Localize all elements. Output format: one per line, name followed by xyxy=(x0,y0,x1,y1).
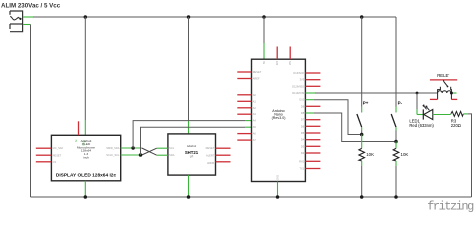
OLED pin RESET xyxy=(36,154,52,156)
junction 5V-SHT21 xyxy=(187,15,191,19)
crossover X wires xyxy=(142,148,157,155)
relay switch arm xyxy=(438,80,452,93)
pushbutton P+ arm xyxy=(357,114,362,127)
junction GND-OLED xyxy=(84,195,88,199)
wire 5V drop to Arduino 5V pin xyxy=(263,17,265,59)
svg-text:RESET: RESET xyxy=(53,153,62,157)
wire GND rail xyxy=(31,196,472,198)
svg-text:RELE’: RELE’ xyxy=(437,73,449,78)
svg-text:A6: A6 xyxy=(253,132,257,136)
junction P- node xyxy=(394,140,398,144)
junction GND-SHT21 xyxy=(187,195,191,199)
junction 5V-Arduino xyxy=(262,15,266,19)
SHT21 bottom pin GND xyxy=(188,175,190,197)
junction relay coil xyxy=(450,92,453,95)
svg-text:A1: A1 xyxy=(253,99,257,103)
wire I2C riser B to Arduino A5 xyxy=(141,127,252,155)
svg-text:A7: A7 xyxy=(253,138,257,142)
svg-text:D8: D8 xyxy=(301,111,305,115)
junction GND-R1 xyxy=(360,195,364,199)
svg-text:ALERT: ALERT xyxy=(206,154,215,158)
wire LED to R3 xyxy=(433,114,451,116)
wire 5V rail xyxy=(33,16,396,18)
OLED top pin labels xyxy=(75,139,86,146)
wire LED branch drop xyxy=(417,93,423,115)
svg-text:VIN: VIN xyxy=(289,61,292,65)
svg-text:SHT21: SHT21 xyxy=(185,150,199,155)
svg-text:Red (633nm): Red (633nm) xyxy=(409,123,434,128)
wire OLED SDA to crossover xyxy=(121,147,142,149)
connector J1 tip contact dot xyxy=(19,18,21,20)
junction GND-R2 xyxy=(394,195,398,199)
svg-text:D6: D6 xyxy=(301,124,305,128)
svg-text:3V3: 3V3 xyxy=(276,60,279,65)
arduino top pin VIN stub xyxy=(289,47,291,60)
svg-text:ALIM 230Vac / 5 Vcc: ALIM 230Vac / 5 Vcc xyxy=(1,2,61,9)
arduino right pins unconnected xyxy=(305,73,320,169)
svg-text:U?: U? xyxy=(190,155,194,159)
arduino right pin labels xyxy=(292,71,305,171)
relay coil green stub xyxy=(451,92,456,94)
svg-text:inch: inch xyxy=(83,155,89,159)
junction I2C node A xyxy=(131,146,135,150)
svg-text:CS: CS xyxy=(53,160,57,164)
relay bottom pin bars xyxy=(430,98,457,100)
SHT21 right pin RESET xyxy=(216,147,231,149)
svg-text:A4: A4 xyxy=(253,119,257,123)
svg-text:DISPLAY OLED 128x64 I2c: DISPLAY OLED 128x64 I2c xyxy=(56,173,117,179)
svg-text:A3: A3 xyxy=(253,112,257,116)
resistor R3 labels xyxy=(451,119,461,128)
svg-text:D9: D9 xyxy=(301,104,305,108)
OLED top pin 3v stub xyxy=(78,121,80,135)
pushbutton P- arm xyxy=(391,114,396,127)
svg-text:D12/MISO: D12/MISO xyxy=(292,84,304,88)
svg-text:RX0: RX0 xyxy=(299,159,305,163)
SHT21 right pin ADDR xyxy=(216,161,231,163)
svg-text:220Ω: 220Ω xyxy=(451,123,461,128)
wire OLED SCL to crossover xyxy=(121,154,142,156)
wire crossover to SHT21 SCL xyxy=(157,147,168,149)
svg-text:A2: A2 xyxy=(253,106,257,110)
wire 5V drop to pushbutton P- xyxy=(395,17,397,113)
connector J1 power jack xyxy=(10,11,23,32)
svg-text:P+: P+ xyxy=(363,100,369,105)
svg-text:fritzing: fritzing xyxy=(427,199,474,213)
relay coil xyxy=(438,91,452,100)
relay top pins bar xyxy=(430,79,457,81)
junction LED branch xyxy=(416,92,419,95)
svg-text:RESET: RESET xyxy=(253,70,262,74)
svg-text:SCL: SCL xyxy=(169,146,175,150)
LED1 emission arrows xyxy=(423,105,429,110)
SHT21 right pin ALERT xyxy=(216,154,231,156)
LED1 labels xyxy=(409,119,434,128)
OLED inner description text xyxy=(77,139,95,160)
SHT21 pin labels xyxy=(169,146,215,165)
svg-text:5V: 5V xyxy=(263,61,266,64)
wire I2C riser A to Arduino A4 xyxy=(133,121,251,148)
svg-text:D2: D2 xyxy=(301,151,305,155)
resistor R3 220 xyxy=(451,111,464,116)
SHT21 inner text xyxy=(185,144,199,158)
arduino bottom pin GND xyxy=(277,182,279,198)
junction I2C node B xyxy=(139,153,143,157)
wire J1 pin2 green stub xyxy=(23,24,31,26)
wire 5V drop to OLED xyxy=(84,17,86,135)
wire arduino D8 to P- node xyxy=(305,113,396,142)
display OLED U3 body xyxy=(51,135,120,181)
arduino top pin 3V3 stub xyxy=(276,47,278,60)
sensor SHT21 U2 body xyxy=(168,134,216,175)
svg-text:10K: 10K xyxy=(366,152,374,157)
wire J1 pin1 to 5V rail (green stub) xyxy=(23,16,33,18)
svg-text:Adafruit: Adafruit xyxy=(187,144,197,148)
OLED pin CS xyxy=(36,161,52,163)
svg-text:D13/SCK: D13/SCK xyxy=(293,71,304,75)
svg-text:D3: D3 xyxy=(301,144,305,148)
junction 5V-OLED xyxy=(84,15,88,19)
svg-text:SCLK_SCL: SCLK_SCL xyxy=(106,153,120,157)
svg-text:(Rev3.0): (Rev3.0) xyxy=(272,116,286,120)
OLED bottom pin GND xyxy=(84,181,86,197)
wire arduino D11 to relay coil xyxy=(305,92,437,94)
svg-text:P-: P- xyxy=(398,100,403,105)
wire 5V drop to pushbutton P+ xyxy=(361,17,363,113)
wire GND left drop xyxy=(30,25,32,198)
svg-text:3V3: 3V3 xyxy=(300,78,305,82)
wire arduino D10 to P+ node xyxy=(305,100,361,135)
svg-text:D10: D10 xyxy=(299,98,304,102)
svg-text:10K: 10K xyxy=(401,152,409,157)
wire crossover to SHT21 SDA xyxy=(157,154,168,156)
svg-text:AREF: AREF xyxy=(253,77,260,81)
arduino center label xyxy=(272,109,286,120)
resistor R2 10K xyxy=(393,142,399,198)
svg-text:SMID_SDA: SMID_SDA xyxy=(106,146,120,150)
OLED pin I2C_SA0 xyxy=(36,147,52,149)
pushbutton P+ lower stub xyxy=(361,127,363,134)
junction 5V-P+ xyxy=(360,15,364,19)
svg-text:TX1: TX1 xyxy=(299,167,304,171)
wire R3 to GND riser xyxy=(463,114,471,197)
resistor R1 10K xyxy=(359,135,365,198)
junction P+ node xyxy=(360,133,364,137)
arduino left pin labels xyxy=(253,70,262,142)
arduino top pin labels xyxy=(263,60,292,180)
svg-text:A5: A5 xyxy=(253,125,257,129)
LED1 symbol xyxy=(423,109,433,119)
wire 5V drop to SHT21 xyxy=(188,17,190,134)
svg-text:I2C_SA0: I2C_SA0 xyxy=(53,146,64,150)
pushbutton P- lower stub xyxy=(395,127,397,141)
svg-text:A0: A0 xyxy=(253,93,257,97)
arduino left pins unconnected xyxy=(237,72,251,140)
junction GND-Arduino xyxy=(276,195,280,199)
svg-text:D5: D5 xyxy=(301,131,305,135)
OLED pin labels left xyxy=(53,146,64,164)
svg-text:D4: D4 xyxy=(301,138,305,142)
arduino nano U1 body xyxy=(252,59,306,181)
svg-text:ADDR: ADDR xyxy=(207,161,214,165)
svg-text:D11/MOSI: D11/MOSI xyxy=(292,91,304,95)
svg-text:GND: GND xyxy=(277,175,280,181)
svg-text:SDA: SDA xyxy=(169,153,175,157)
svg-text:RESET: RESET xyxy=(206,146,215,150)
svg-text:D7: D7 xyxy=(301,118,305,122)
OLED pin labels right xyxy=(106,146,120,157)
